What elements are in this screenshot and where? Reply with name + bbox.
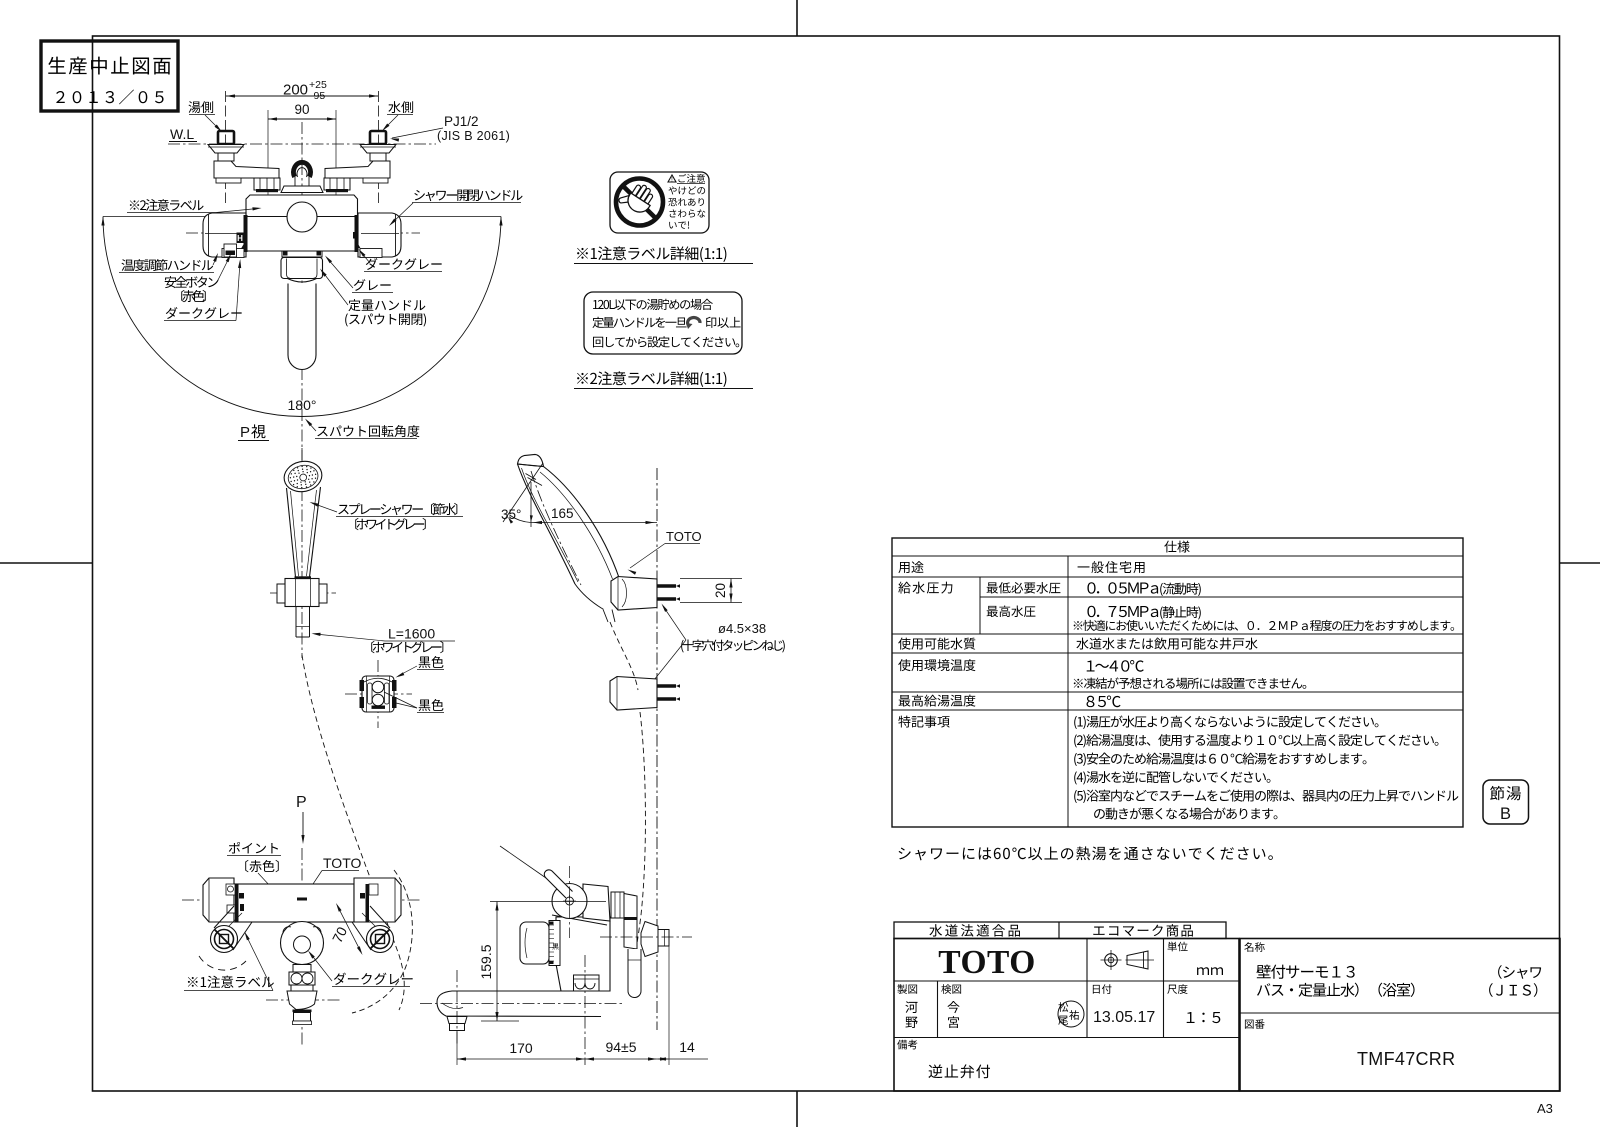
svg-text:-95: -95: [310, 90, 325, 102]
svg-text:94±5: 94±5: [605, 1039, 636, 1055]
svg-text:B: B: [1500, 805, 1511, 823]
svg-text:TOTO: TOTO: [323, 855, 361, 871]
svg-text:90: 90: [294, 102, 309, 117]
svg-text:P: P: [296, 794, 307, 811]
svg-text:14: 14: [679, 1039, 695, 1055]
svg-text:35°: 35°: [501, 507, 521, 522]
svg-text:20: 20: [713, 583, 728, 598]
svg-text:PJ1/2: PJ1/2: [444, 114, 479, 129]
svg-text:A3: A3: [1537, 1101, 1553, 1116]
svg-text:180°: 180°: [288, 397, 317, 413]
svg-text:159.5: 159.5: [478, 944, 494, 979]
svg-text:P: P: [240, 424, 250, 441]
svg-text:TOTO: TOTO: [938, 944, 1036, 981]
svg-text:L=1600: L=1600: [388, 626, 435, 642]
svg-text:165: 165: [551, 506, 574, 521]
svg-text:200: 200: [283, 82, 308, 99]
svg-text:ø4.5×38: ø4.5×38: [718, 621, 766, 636]
svg-text:TOTO: TOTO: [666, 529, 702, 544]
svg-text:170: 170: [509, 1040, 533, 1056]
svg-text:(JIS B 2061): (JIS B 2061): [437, 129, 510, 143]
svg-text:H: H: [237, 234, 243, 243]
svg-text:TMF47CRR: TMF47CRR: [1357, 1049, 1455, 1069]
svg-text:13.05.17: 13.05.17: [1093, 1009, 1155, 1026]
svg-text:W.L: W.L: [170, 126, 194, 142]
